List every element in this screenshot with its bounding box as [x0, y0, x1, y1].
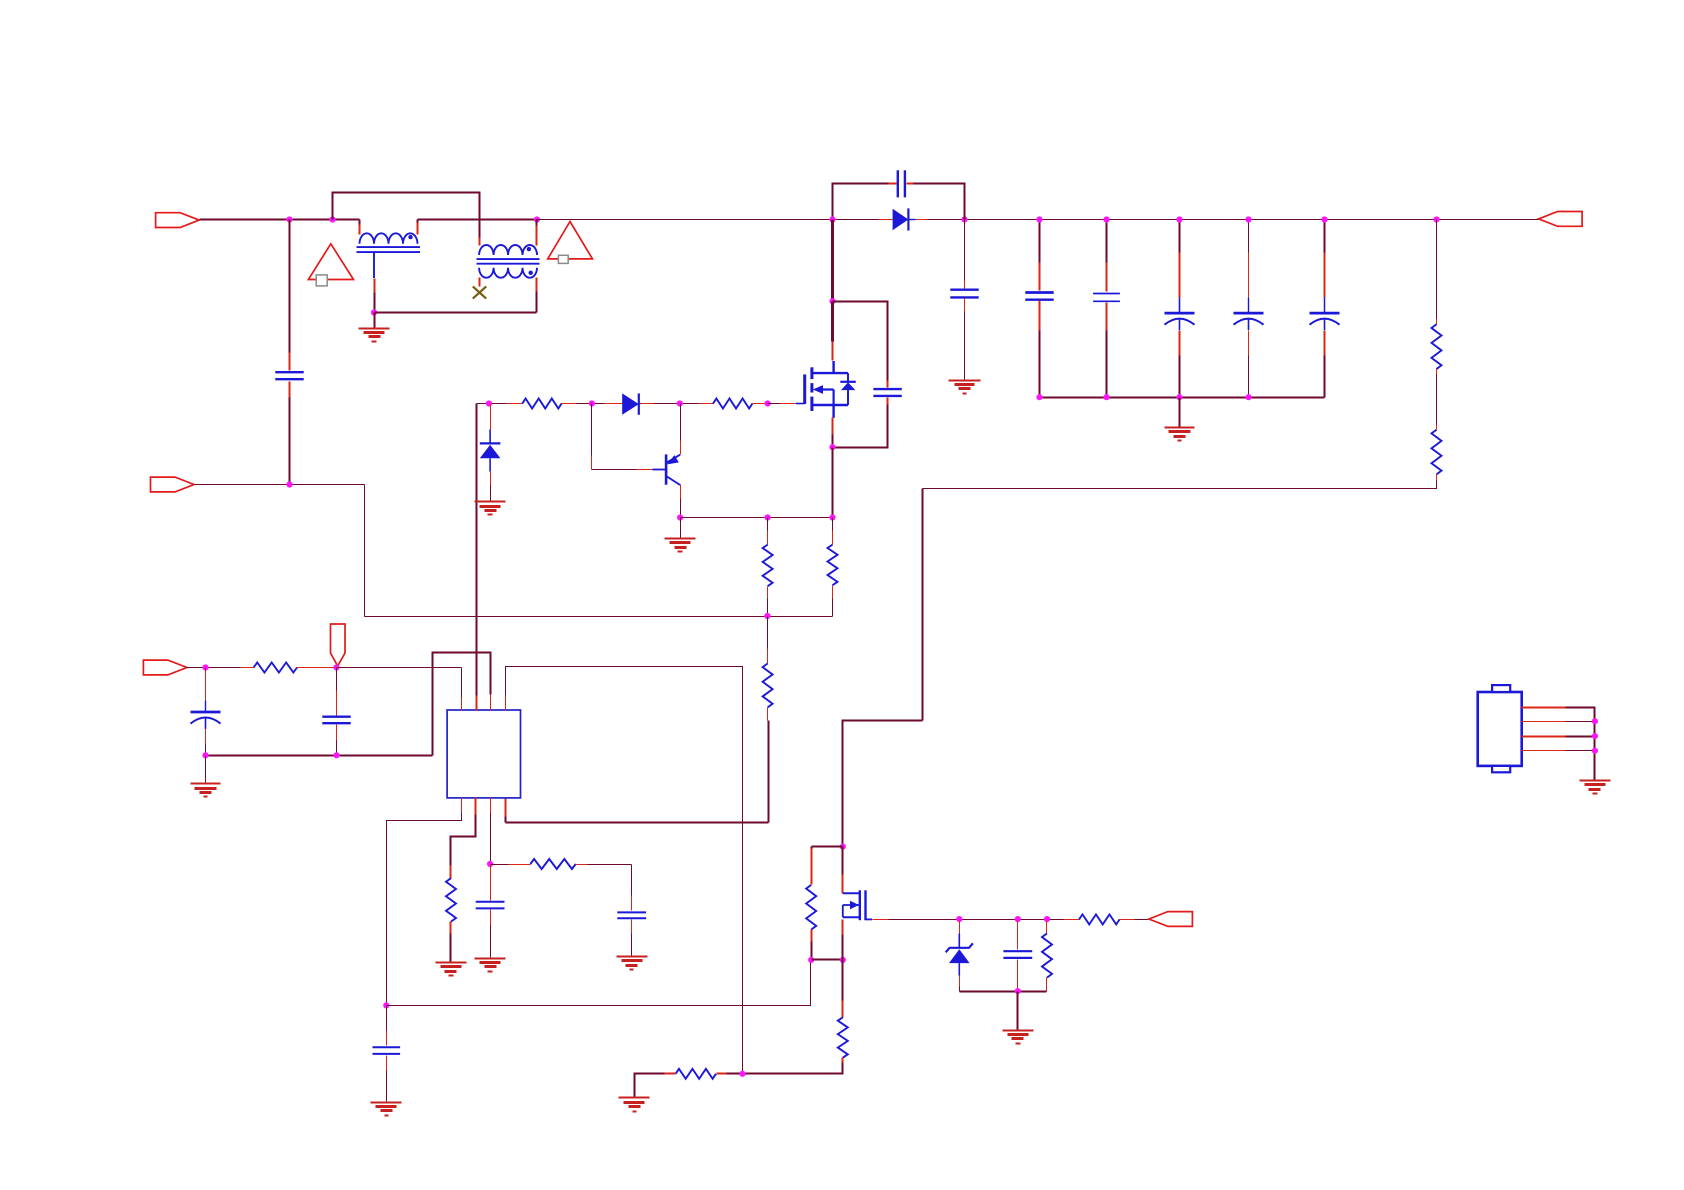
- junction gate row at Q3 collector: [677, 400, 683, 406]
- resistor R4 top lead: [767, 518, 769, 531]
- junction sense rail at R4: [765, 514, 771, 520]
- ground G2: [949, 380, 981, 382]
- IC U1 pin1 stub: [461, 698, 463, 711]
- resistor R2: [522, 399, 561, 409]
- wire Q3 emitter lead: [680, 404, 682, 441]
- MOSFET Q1 channel bar: [810, 367, 813, 379]
- wire top rail left: [200, 219, 360, 221]
- junction J1 pin3: [1592, 733, 1598, 739]
- junction on top rail at C1 branch: [286, 216, 292, 222]
- wire Q1 source lead: [832, 418, 834, 435]
- triangle marker T3 right: [548, 222, 593, 259]
- capacitor C10: [373, 1046, 401, 1048]
- output port P5: [1539, 212, 1583, 227]
- wire to port P5: [1437, 219, 1539, 221]
- wire T1 secondary right lead: [536, 278, 538, 292]
- wire gate row to R3: [654, 403, 699, 405]
- resistor R5 top lead: [832, 518, 834, 531]
- junction top rail C12: [1176, 216, 1182, 222]
- MOSFET Q1 body arm with arrow: [821, 388, 834, 390]
- junction J1 pin2: [1592, 718, 1598, 724]
- IC U1 pin6 stub: [475, 798, 477, 815]
- triangle marker T2 left: [308, 244, 353, 280]
- polarized capacitor C15 upper lead: [205, 668, 207, 671]
- wire R13 to ground: [635, 1074, 665, 1098]
- input port P2: [151, 477, 195, 492]
- wire Q2 source to R12: [842, 960, 844, 1001]
- resistor R12 lower lead: [842, 1058, 844, 1063]
- junction pin5 node: [383, 1002, 389, 1008]
- capacitor C5: [1093, 293, 1120, 295]
- capacitor C7 upper lead: [336, 668, 338, 691]
- diode D2 anode stub: [605, 403, 623, 405]
- wire to Q1 gate: [768, 403, 781, 405]
- transistor Q3 base bar: [665, 454, 668, 484]
- IC U1: [447, 710, 520, 798]
- wire pin3 loop: [433, 653, 491, 756]
- clamp diode D3 bottom lead: [489, 458, 491, 471]
- junction at MOSFET drain rail: [829, 216, 835, 222]
- ground G6 lead: [205, 756, 207, 784]
- capacitor C4 branch lower: [1039, 301, 1041, 331]
- ground G3: [1165, 427, 1195, 429]
- capacitor C11: [1003, 950, 1032, 952]
- capacitor C9 lower lead: [631, 920, 633, 934]
- resistor R8: [1432, 430, 1442, 475]
- wire T1 upper-right lead: [536, 220, 538, 226]
- capacitor C7: [322, 716, 350, 718]
- junction zener rail: [1015, 988, 1021, 994]
- wire from P2: [195, 484, 365, 486]
- capacitor C6 snubber: [873, 388, 901, 390]
- capacitor C3 branch upper: [964, 220, 966, 281]
- wire Q3 base branch: [591, 404, 593, 456]
- junction return rail C15: [202, 752, 208, 758]
- resistor R9: [446, 878, 456, 922]
- junction bottom rail pin4: [739, 1071, 745, 1077]
- resistor R1: [254, 663, 297, 673]
- resistor R3: [713, 399, 752, 409]
- transformer T1 secondary dot: [529, 271, 533, 275]
- wire pin7 node to R10: [491, 864, 509, 866]
- resistor R13 right stub: [717, 1073, 727, 1075]
- junction top rail C14: [1321, 216, 1327, 222]
- ground G13: [1580, 780, 1611, 782]
- junction top rail at T1: [534, 216, 540, 222]
- ground G5 lead: [680, 518, 682, 539]
- ground G5: [665, 538, 696, 540]
- wire R10 to C9: [576, 864, 588, 866]
- polarized capacitor C12: [1165, 312, 1195, 315]
- resistor R11: [806, 885, 816, 930]
- junction J1 pin4: [1592, 748, 1598, 754]
- wire feedback to regulator: [843, 721, 923, 847]
- MOSFET Q2 drain arm: [843, 892, 860, 894]
- MOSFET Q1 source arm: [812, 404, 848, 406]
- resistor R6: [763, 664, 773, 708]
- diode D2 cathode stub: [639, 403, 641, 405]
- capacitor C10 upper lead: [386, 1006, 388, 1031]
- junction gate row at clamp diode: [486, 400, 492, 406]
- junction at L1 tap / bottom return: [371, 309, 377, 315]
- wire L1 right lead: [417, 220, 419, 223]
- junction at diode output: [961, 216, 967, 222]
- junction Q3 collector at sense rail: [677, 514, 683, 520]
- wire top loop over inductor: [333, 193, 480, 238]
- IC U1 pin5 stub: [461, 798, 463, 814]
- junction bank rail C5: [1103, 394, 1109, 400]
- MOSFET Q2 source arm: [843, 916, 860, 918]
- resistor R4: [763, 545, 773, 587]
- MOSFET Q1 gate bar: [803, 374, 806, 404]
- connector J1 pin2 wire: [1522, 721, 1566, 723]
- wire zener rail: [960, 991, 1047, 993]
- snubber cap C2 left stub: [889, 183, 897, 185]
- capacitor C1: [275, 371, 303, 373]
- resistor R10: [530, 859, 575, 869]
- IC U1 pin2 stub: [476, 696, 478, 711]
- wire Q1 drain from rail: [831, 220, 834, 302]
- connector J1 pin1 wire: [1522, 707, 1566, 709]
- wire Q1 drain lead: [831, 302, 834, 342]
- resistor R12: [838, 1017, 848, 1057]
- resistor R13 left stub: [665, 1073, 676, 1075]
- junction gate row at D2 anode: [589, 400, 595, 406]
- wire T1 secondary left stub: [479, 278, 481, 287]
- capacitor C14 branch lower: [1324, 331, 1326, 356]
- wire gate net: [889, 919, 1064, 921]
- MOSFET Q2 gate lead: [866, 918, 873, 920]
- MOSFET Q2 gate bar: [864, 890, 866, 920]
- junction top rail feedback: [1433, 216, 1439, 222]
- junction Q1 source snubber: [829, 444, 835, 450]
- feedback mid lead: [1436, 369, 1438, 375]
- resistor R9 lower lead: [450, 922, 452, 934]
- ground G1: [359, 328, 390, 330]
- capacitor C12 branch lower: [1179, 331, 1181, 356]
- wire RC snubber lower: [887, 398, 889, 405]
- snubber cap C2 right stub: [907, 183, 914, 185]
- wire Q2 bleed branch: [812, 846, 843, 848]
- gray square on right triangle: [558, 255, 568, 263]
- ground G3 lead: [1179, 398, 1181, 428]
- capacitor C4: [1025, 291, 1053, 294]
- capacitor C7 lower lead: [336, 725, 338, 741]
- output port P4: [1149, 912, 1193, 927]
- diode D2: [622, 393, 639, 414]
- resistor R4 bottom lead: [767, 587, 769, 599]
- polarized capacitor C15: [191, 711, 221, 714]
- MOSFET Q2 body arm with arrow: [843, 904, 860, 906]
- resistor R14: [1042, 933, 1052, 977]
- ground G10: [371, 1102, 402, 1104]
- wire gate row mid: [577, 403, 605, 405]
- junction Q1 drain snubber: [829, 298, 835, 304]
- capacitor C11 upper lead: [1017, 921, 1019, 950]
- capacitor C5 branch upper: [1106, 220, 1108, 263]
- zener Z2 upper lead: [959, 921, 961, 934]
- wire pin8 run: [506, 822, 769, 824]
- resistor R14 upper lead: [1046, 921, 1048, 934]
- resistor R13: [676, 1069, 716, 1079]
- wire bottom return of filter: [375, 312, 537, 314]
- diode D1 anode stub: [879, 219, 893, 221]
- capacitor C8 upper lead: [490, 865, 492, 901]
- input port P3: [143, 660, 187, 675]
- inductor L1 winding: [360, 233, 418, 244]
- wire Q1 source to sense rail: [832, 448, 834, 518]
- capacitor C3 branch lower: [964, 299, 966, 312]
- wire top rail right of T1: [537, 219, 879, 221]
- ground G1 lead: [374, 313, 376, 329]
- inductor L1 center tap lead: [373, 252, 375, 278]
- wire Q3 collector lead: [680, 485, 682, 499]
- resistor R3 right stub: [753, 403, 768, 405]
- IC U1 pin8 stub: [505, 798, 507, 817]
- inductor L1 polarity dot: [408, 235, 412, 239]
- feedback divider upper lead: [1436, 220, 1438, 319]
- capacitor C5 branch lower: [1106, 303, 1108, 331]
- IC U1 pin4 stub: [505, 696, 507, 711]
- resistor R6 bottom lead: [767, 708, 769, 721]
- capacitor C10 lower lead: [386, 1056, 388, 1071]
- connector J1 pin3 wire: [1522, 736, 1566, 738]
- resistor R2 right stub: [562, 403, 577, 405]
- resistor R15: [1079, 914, 1120, 924]
- junction top rail C4: [1036, 216, 1042, 222]
- IC U1 pin7 stub: [490, 798, 492, 814]
- wire R1 to flag node: [297, 667, 337, 669]
- test point flag TP1: [331, 624, 346, 666]
- transformer T1 core lines: [477, 258, 540, 260]
- connector J1: [1478, 692, 1522, 766]
- no-connect X on T1 pin: [473, 286, 486, 298]
- wire flag node to pin1: [337, 667, 462, 669]
- wire C1 branch upper: [289, 220, 291, 353]
- ground G12 lead: [1017, 992, 1019, 1031]
- resistor R14 lower lead: [1046, 978, 1048, 992]
- resistor R11 lower lead: [811, 930, 813, 942]
- wire analog return rail: [206, 755, 433, 757]
- junction gate net resistor: [1044, 916, 1050, 922]
- wire C1 branch lower: [289, 382, 291, 398]
- transformer T1 secondary winding: [479, 268, 537, 278]
- ground G4: [475, 501, 506, 503]
- MOSFET Q1 body diode: [847, 373, 849, 382]
- wire top rail mid: [418, 219, 537, 221]
- wire T1 upper-left lead: [479, 238, 481, 246]
- MOSFET Q1 drain arm: [812, 372, 848, 374]
- transformer T1 primary winding: [479, 245, 537, 255]
- junction bank rail C12: [1176, 394, 1182, 400]
- junction bank rail C13: [1245, 394, 1251, 400]
- polarized capacitor C14: [1310, 312, 1340, 315]
- resistor R5: [828, 545, 838, 586]
- junction return rail C7: [333, 752, 339, 758]
- capacitor C4 branch upper: [1039, 220, 1041, 263]
- junction on top rail at snubber loop: [329, 216, 335, 222]
- transformer T1 primary dot: [527, 247, 531, 251]
- diode D1: [893, 209, 909, 230]
- wire P3 to R1: [187, 667, 241, 669]
- capacitor C9: [617, 911, 646, 913]
- feedback lower lead: [1436, 475, 1438, 481]
- polarized capacitor C15 lower lead: [205, 729, 207, 745]
- junction gate net cap: [1015, 916, 1021, 922]
- capacitor C12 branch upper: [1179, 220, 1181, 253]
- wire pin5 run: [387, 814, 462, 1006]
- wire Q2 source lead: [842, 920, 844, 935]
- wire RC snubber branch: [833, 302, 888, 381]
- junction R11 bottom: [808, 957, 814, 963]
- ground G6: [191, 783, 221, 785]
- junction Q2 source node: [840, 957, 846, 963]
- wire top rail to output: [928, 219, 1437, 221]
- capacitor C13 branch upper: [1248, 220, 1250, 253]
- junction flag node: [333, 664, 339, 670]
- input port P1: [156, 213, 200, 228]
- wire pin5 node to regulator: [387, 960, 811, 1006]
- junction gate net zener: [956, 916, 962, 922]
- resistor R2 left stub: [507, 403, 523, 405]
- resistor R7: [1432, 324, 1442, 369]
- capacitor C13 branch lower: [1248, 331, 1250, 356]
- resistor R6 top lead: [767, 617, 769, 649]
- clamp diode D3: [480, 442, 501, 444]
- junction pin7 node: [487, 861, 493, 867]
- zener Z2: [946, 943, 973, 952]
- ground G11: [619, 1097, 650, 1099]
- gray square on left triangle: [316, 275, 327, 286]
- capacitor C2: [897, 170, 899, 197]
- wire pin7 lead: [490, 814, 492, 865]
- wire Q2 drain lead: [842, 847, 844, 875]
- wire rail y615: [365, 616, 833, 618]
- junction sense rail at R5: [829, 514, 835, 520]
- wire pin4 loop: [506, 667, 743, 1074]
- clamp diode D3 top lead: [490, 404, 492, 430]
- junction top rail C5: [1103, 216, 1109, 222]
- capacitor C3: [950, 289, 978, 291]
- diode D1 cathode stub: [916, 219, 928, 221]
- junction under C1: [286, 481, 292, 487]
- capacitor C8: [476, 901, 505, 903]
- wire cap bank bottom rail: [1040, 397, 1325, 399]
- MOSFET Q2 channel bar: [859, 890, 861, 920]
- wire pin6 branch: [451, 815, 476, 866]
- capacitor C14 branch upper: [1324, 220, 1326, 253]
- wire R15 to port: [1120, 919, 1135, 921]
- resistor R5 bottom lead: [832, 586, 834, 599]
- junction gate row at gate resistor node: [765, 400, 771, 406]
- transistor Q3 emitter with arrow: [666, 455, 680, 463]
- wire L1 left lead: [359, 220, 361, 225]
- wire R11 to Q2 source: [812, 959, 843, 961]
- ground G12: [1003, 1030, 1034, 1032]
- wire sense rail y517: [681, 517, 833, 519]
- wire feedback drop: [922, 489, 924, 721]
- capacitor C8 lower lead: [490, 910, 492, 926]
- inductor L1 core lines: [357, 246, 421, 248]
- junction rail y615 at R6: [764, 613, 770, 619]
- resistor R3 left stub: [699, 403, 714, 405]
- wire gate drive row start: [477, 403, 507, 405]
- transistor Q3 collector arm: [666, 476, 680, 485]
- junction regulator input: [840, 844, 846, 850]
- junction P3 cap branch: [202, 664, 208, 670]
- ground G8: [475, 958, 506, 960]
- connector J1 pin4 wire: [1522, 750, 1566, 752]
- IC U1 pin3 stub: [490, 695, 492, 711]
- junction bank rail C4: [1036, 394, 1042, 400]
- ground G7: [436, 962, 467, 964]
- ground G9: [617, 956, 648, 958]
- capacitor C11 lower lead: [1017, 960, 1019, 992]
- wire P2 net down: [364, 485, 366, 617]
- zener Z2 lower lead: [958, 963, 960, 975]
- resistor R15 left stub: [1064, 919, 1080, 921]
- junction top rail C13: [1245, 216, 1251, 222]
- wire gate drive pin2 riser: [476, 404, 478, 696]
- wire snubber cap loop: [833, 184, 889, 220]
- polarized capacitor C13: [1234, 312, 1264, 315]
